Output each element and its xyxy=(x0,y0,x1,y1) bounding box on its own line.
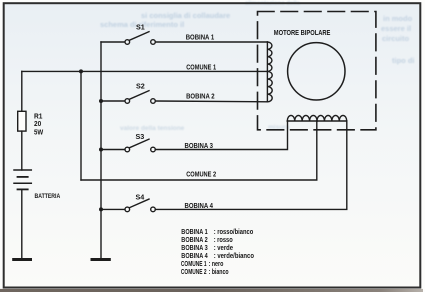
svg-text:si consiglia di collaudare: si consiglia di collaudare xyxy=(141,11,230,20)
svg-text:: rosso: : rosso xyxy=(214,237,233,244)
switch S3 xyxy=(101,139,155,152)
svg-text:BOBINA 2: BOBINA 2 xyxy=(186,93,215,100)
svg-text:BOBINA 3: BOBINA 3 xyxy=(181,245,207,252)
svg-text:MOTORE BIPOLARE: MOTORE BIPOLARE xyxy=(274,28,331,37)
svg-text:BOBINA 4: BOBINA 4 xyxy=(185,203,214,210)
node junction S4 xyxy=(99,207,103,211)
switch S4 xyxy=(101,199,155,212)
svg-text:circuito: circuito xyxy=(382,34,410,43)
svg-text:COMUNE 1: COMUNE 1 xyxy=(181,261,207,268)
svg-text:essere il: essere il xyxy=(381,24,411,33)
svg-text:COMUNE 1: COMUNE 1 xyxy=(186,64,216,71)
wire COMUNE2 horizontal xyxy=(81,121,317,180)
node junction comune link xyxy=(79,69,83,73)
wire BOBINA1 xyxy=(155,41,267,43)
ground bar left xyxy=(12,258,32,261)
wire BOBINA4 xyxy=(155,121,346,209)
wire comune link vertical xyxy=(80,71,82,180)
svg-text:tipo di: tipo di xyxy=(392,56,415,65)
svg-text:S2: S2 xyxy=(136,81,145,90)
svg-text:BOBINA 1: BOBINA 1 xyxy=(186,34,215,41)
battery BATTERIA xyxy=(14,170,31,189)
svg-text:: verde: : verde xyxy=(214,245,233,252)
svg-text:: nero: : nero xyxy=(209,261,224,268)
svg-text:BOBINA 2: BOBINA 2 xyxy=(181,237,207,244)
coil bottom winding xyxy=(287,115,347,121)
switch S2 xyxy=(101,91,155,104)
svg-text:in modo: in modo xyxy=(383,14,413,23)
svg-text:COMUNE 2: COMUNE 2 xyxy=(181,269,207,276)
svg-text:5W: 5W xyxy=(34,129,44,136)
ghost print-through text top right xyxy=(120,1,415,132)
wire COMUNE1 horizontal xyxy=(22,70,268,72)
svg-text:: bianco: : bianco xyxy=(209,269,229,276)
svg-text:BOBINA 1: BOBINA 1 xyxy=(181,229,207,236)
svg-text:20: 20 xyxy=(34,121,41,128)
svg-text:COMUNE 2: COMUNE 2 xyxy=(186,172,216,179)
wire BOBINA3 xyxy=(155,121,287,150)
rotor circle xyxy=(288,43,345,100)
node junction S3 xyxy=(99,148,103,152)
legend wire colours xyxy=(181,229,254,276)
svg-text:S3: S3 xyxy=(136,132,145,141)
wire resistor to battery xyxy=(21,131,23,170)
svg-text:: verde/bianco: : verde/bianco xyxy=(214,253,254,260)
switch S1 xyxy=(101,32,155,45)
svg-text:BATTERIA: BATTERIA xyxy=(35,193,61,200)
ghost print-through text top left xyxy=(100,11,230,29)
coil left winding xyxy=(267,42,272,102)
wire battery to ground xyxy=(21,189,23,258)
wire bus vertical xyxy=(100,42,102,259)
wire resistor branch top xyxy=(21,71,23,111)
node junction S2 xyxy=(99,99,103,103)
ground bar right xyxy=(91,258,111,261)
svg-text:S4: S4 xyxy=(136,193,145,202)
svg-text:: rosso/bianco: : rosso/bianco xyxy=(214,229,254,236)
svg-text:S1: S1 xyxy=(136,22,145,31)
svg-text:BOBINA 4: BOBINA 4 xyxy=(181,253,207,260)
wire BOBINA2 xyxy=(155,100,267,103)
motor box dashed outline xyxy=(258,12,376,130)
svg-text:BOBINA 3: BOBINA 3 xyxy=(185,143,214,150)
svg-text:valore della tensione: valore della tensione xyxy=(120,125,185,132)
resistor R1 xyxy=(18,111,26,131)
svg-text:R1: R1 xyxy=(34,113,43,120)
